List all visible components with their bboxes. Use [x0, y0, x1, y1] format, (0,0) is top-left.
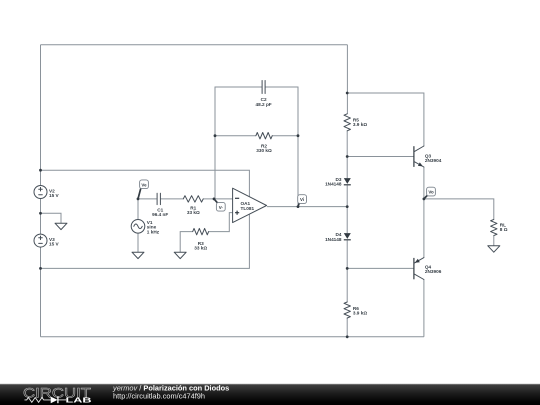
node Ve [138, 180, 148, 199]
node junction (298,135.7) [297, 134, 300, 137]
svg-text:33 kΩ: 33 kΩ [194, 246, 207, 251]
footer bar [0, 384, 540, 405]
voltage source V2 [34, 186, 60, 199]
diode D4 1N4148 [325, 232, 351, 242]
node V- [214, 199, 225, 211]
wire V1 to ground [137, 233, 139, 252]
capacitor C2 [256, 81, 272, 107]
node junction (347.2,268.4) [346, 267, 349, 270]
transistor Q4 2N3906 [414, 258, 442, 280]
wire Vo node to RL [424, 199, 494, 220]
wire R1 to op-amp inverting input [203, 198, 233, 200]
wire Q4 base [347, 267, 414, 269]
wire op-amp output [267, 206, 347, 208]
resistor R6 [344, 302, 367, 318]
wire R2 left lead [215, 135, 256, 137]
wire right chain top [346, 45, 348, 114]
node junction (298,206.6) [297, 205, 300, 208]
svg-text:1N4148: 1N4148 [325, 182, 342, 187]
node junction (347.2,93) [346, 92, 349, 95]
resistor R5 [344, 114, 367, 131]
svg-text:TL081: TL081 [241, 206, 255, 211]
wire R5 to D3 [346, 131, 348, 178]
node junction (40.5,170.2) [39, 169, 42, 172]
ground (RL) [488, 246, 500, 252]
ground (V2/V3 midpoint) [55, 223, 67, 229]
node junction (347.2,336.8) [346, 335, 349, 338]
svg-text:15 V: 15 V [49, 242, 60, 247]
svg-text:2N3906: 2N3906 [425, 269, 442, 274]
wire V2 to V3 [40, 199, 42, 235]
svg-text:15 V: 15 V [49, 193, 60, 198]
wire C2 to right vertical [265, 87, 298, 207]
ground (V1) [132, 252, 144, 258]
resistor RL [491, 219, 508, 235]
wire Ve node to V1 [137, 199, 139, 220]
CircuitLab logo [23, 385, 92, 404]
svg-text:1N4148: 1N4148 [325, 237, 342, 242]
wire left vertical upper [40, 45, 42, 186]
wire V3 to bottom [40, 247, 42, 337]
wire Q3 base [347, 156, 414, 158]
svg-text:1 kHz: 1 kHz [147, 229, 160, 234]
wire to Q3 collector [347, 93, 424, 146]
node junction (40.5,268.4) [39, 267, 42, 270]
wire +15V rail to op-amp V+ pin [41, 170, 250, 197]
wire D3 to D4 [346, 185, 348, 233]
svg-text:2N3904: 2N3904 [425, 158, 442, 163]
voltage source V1 [131, 220, 160, 235]
svg-text:96.4 nF: 96.4 nF [152, 212, 168, 217]
wire Q4 collector to bottom rail [423, 280, 425, 337]
wire RL to ground [493, 236, 495, 246]
wire Ve node to C1 [138, 198, 157, 200]
wire R6 to bottom rail [346, 318, 348, 337]
svg-text:3.9 kΩ: 3.9 kΩ [353, 122, 367, 127]
diode D3 1N4148 [325, 177, 351, 187]
node junction (347.2,206.6) [346, 205, 349, 208]
svg-text:33 kΩ: 33 kΩ [187, 210, 200, 215]
node junction (138,198.9) [137, 198, 140, 201]
wire top rail [41, 44, 348, 46]
wire D4 to R6 [346, 240, 348, 302]
svg-text:Vo: Vo [428, 190, 434, 195]
svg-text:48.2 pF: 48.2 pF [256, 102, 272, 107]
svg-text:Vi: Vi [300, 197, 304, 202]
resistor R1 [183, 196, 203, 215]
op-amp OA1 TL081 [233, 188, 267, 222]
voltage source V3 [34, 234, 60, 247]
ground (R3) [174, 252, 186, 258]
wire R2 right lead [272, 135, 298, 137]
wire C1 to R1 [160, 198, 183, 200]
node Vi [298, 195, 307, 207]
node junction (40.5,213.3) [39, 212, 42, 215]
resistor R2 [256, 133, 272, 154]
node junction (214,198.9) [213, 198, 216, 201]
wire V2/V3 midpoint to ground [41, 213, 62, 223]
svg-text:8 Ω: 8 Ω [500, 227, 508, 232]
svg-text:http://circuitlab.com/c474f9h: http://circuitlab.com/c474f9h [113, 392, 205, 401]
wire op-amp non-inverting input to R3 [209, 213, 233, 232]
node junction (347.2,156.5) [346, 155, 349, 158]
capacitor C1 [152, 193, 168, 217]
wire feedback left vertical [215, 87, 262, 199]
wire R3 to ground [180, 232, 193, 253]
wire Q3 emitter to Vo node [423, 167, 425, 199]
svg-text:V-: V- [219, 205, 224, 210]
svg-text:LAB: LAB [66, 396, 92, 405]
svg-text:330 kΩ: 330 kΩ [256, 148, 272, 153]
transistor Q3 2N3904 [414, 146, 442, 167]
wire Vo node to Q4 emitter [423, 199, 425, 258]
wire bottom rail [41, 336, 424, 338]
wire -15V rail to op-amp V- pin [41, 214, 250, 269]
svg-text:3.9 kΩ: 3.9 kΩ [353, 311, 367, 316]
resistor R3 [193, 228, 209, 250]
node junction (215,135.7) [214, 134, 217, 137]
node junction (423.9,198.9) [423, 198, 426, 201]
node Vo [424, 187, 436, 199]
svg-text:Ve: Ve [141, 182, 147, 187]
